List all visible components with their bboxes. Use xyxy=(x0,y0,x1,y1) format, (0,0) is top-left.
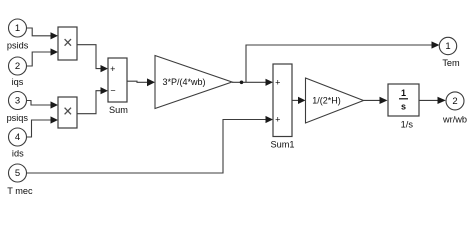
svg-text:5: 5 xyxy=(15,168,20,179)
wire Integrator to output port 2 xyxy=(419,97,446,104)
svg-text:Sum: Sum xyxy=(109,105,128,115)
svg-text:1: 1 xyxy=(445,41,450,52)
wire port5 (T mec) to Sum1 input2 xyxy=(27,116,274,173)
svg-text:Sum1: Sum1 xyxy=(270,139,294,149)
wire Sum to Gain1 xyxy=(127,78,155,86)
wire port2 to Product1 input2 xyxy=(27,48,59,66)
gain block 1/(2*H) xyxy=(306,78,364,123)
svg-text:iqs: iqs xyxy=(12,77,24,87)
svg-text:ids: ids xyxy=(12,149,24,159)
junction dot xyxy=(240,81,244,85)
svg-text:psids: psids xyxy=(7,41,29,51)
wire Product2 to Sum minus input xyxy=(77,87,108,114)
svg-text:+: + xyxy=(110,64,115,74)
wire Gain2 to Integrator xyxy=(364,97,388,104)
gain block 3*P/(4*wb) xyxy=(155,56,232,109)
svg-text:4: 4 xyxy=(15,132,20,143)
svg-text:wr/wb: wr/wb xyxy=(442,115,467,125)
svg-text:+: + xyxy=(275,115,280,125)
svg-text:1/(2*H): 1/(2*H) xyxy=(312,96,341,106)
input port 5 xyxy=(9,164,27,182)
input port 2 xyxy=(9,57,27,75)
svg-text:3*P/(4*wb): 3*P/(4*wb) xyxy=(162,77,205,87)
output port 2 (wr/wb) xyxy=(446,92,464,110)
integrator block 1/s xyxy=(388,84,419,116)
sum block Sum1 xyxy=(273,64,292,137)
svg-text:s: s xyxy=(401,101,406,111)
svg-text:T mec: T mec xyxy=(7,186,33,196)
svg-text:1: 1 xyxy=(15,23,20,34)
svg-text:Tem: Tem xyxy=(442,58,460,68)
svg-text:3: 3 xyxy=(15,96,20,107)
wire branch to output Tem xyxy=(246,41,440,82)
wire port4 to Product2 input2 xyxy=(27,116,59,137)
sum block Sum xyxy=(108,58,127,102)
wire port3 to Product2 input1 xyxy=(27,101,59,109)
wire port1 to Product1 input1 xyxy=(27,28,59,39)
svg-text:−: − xyxy=(110,86,115,96)
wire Sum1 to Gain2 xyxy=(292,97,306,104)
svg-text:psiqs: psiqs xyxy=(7,113,29,123)
wire Gain1 to Sum1 input1 xyxy=(232,79,273,86)
svg-text:1: 1 xyxy=(401,88,406,98)
product block X2 xyxy=(58,97,77,128)
svg-text:1/s: 1/s xyxy=(401,119,414,129)
svg-text:2: 2 xyxy=(15,61,20,72)
input port 4 xyxy=(9,128,27,146)
svg-text:2: 2 xyxy=(452,96,457,107)
input port 3 xyxy=(9,92,27,110)
input port 1 xyxy=(9,19,27,37)
output port 1 (Tem) xyxy=(439,37,456,54)
product block X1 xyxy=(58,27,77,60)
svg-text:+: + xyxy=(275,78,280,88)
wire Product1 to Sum plus input xyxy=(77,45,108,72)
